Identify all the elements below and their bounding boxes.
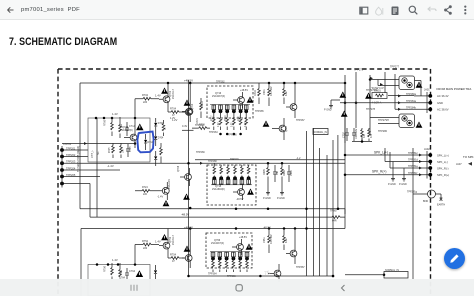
svg-text:TPP268: TPP268 xyxy=(208,160,217,163)
page heading xyxy=(9,36,117,48)
svg-text:R702: R702 xyxy=(142,94,149,97)
resistor R702 xyxy=(135,94,159,104)
svg-text:C951: C951 xyxy=(263,237,266,243)
svg-text:C901: C901 xyxy=(263,89,266,95)
svg-text:R715: R715 xyxy=(196,118,199,124)
svg-text:R705: R705 xyxy=(109,147,111,153)
resistor R712 xyxy=(160,143,163,163)
transistor Q770 xyxy=(286,230,297,264)
ground P-GND (mid 1) xyxy=(263,190,271,200)
svg-text:64R: 64R xyxy=(332,220,337,223)
warning mark (Q716) xyxy=(247,97,254,103)
svg-text:R706: R706 xyxy=(104,119,107,126)
svg-text:+48.5V: +48.5V xyxy=(239,236,247,239)
svg-text:TPP267: TPP267 xyxy=(296,119,305,122)
resistor R758 xyxy=(119,263,123,277)
wire Q704 emitter branch xyxy=(182,129,194,131)
wire TPP205 net xyxy=(62,169,120,171)
svg-text:1.4V: 1.4V xyxy=(112,112,118,116)
svg-text:75: 75 xyxy=(264,270,271,277)
svg-text:-48.5V: -48.5V xyxy=(181,213,189,217)
svg-text:TP667: TP667 xyxy=(330,210,338,213)
svg-text:TPP277: TPP277 xyxy=(390,66,400,69)
wire speaker feed R+ xyxy=(345,174,429,176)
svg-text:R906: R906 xyxy=(283,170,286,176)
resistor TP667 64R xyxy=(330,210,340,223)
resistor R705 xyxy=(109,143,114,158)
resistor labels under Q716 xyxy=(212,115,247,127)
transistor Q702 xyxy=(159,83,175,112)
wire input net horizontal xyxy=(62,143,136,145)
highlight annotation box (hand-drawn) xyxy=(137,132,153,153)
svg-text:GND: GND xyxy=(437,101,443,105)
bottom navigation bar xyxy=(0,279,474,296)
relay NORMAL_IN box (R channel) xyxy=(345,269,408,278)
wire power section verticals xyxy=(345,72,395,143)
transistor inside Q766 xyxy=(232,239,243,255)
warning mark (power 2) xyxy=(341,111,348,117)
diode bridge DB02 (lower pair) xyxy=(399,114,415,128)
svg-text:BND: BND xyxy=(423,200,428,203)
svg-text:R754: R754 xyxy=(170,254,177,257)
ground P-GND (speaker 2) xyxy=(399,168,407,186)
resistor R756 xyxy=(104,263,114,279)
svg-text:220: 220 xyxy=(143,101,148,104)
svg-text:TPP279H: TPP279H xyxy=(378,119,389,122)
svg-text:TPP278: TPP278 xyxy=(366,108,376,111)
svg-text:AC 36.4V: AC 36.4V xyxy=(437,94,449,98)
svg-text:1.4V: 1.4V xyxy=(155,239,161,243)
warning mark (Q766) xyxy=(246,244,253,250)
svg-text:R721: R721 xyxy=(238,115,240,121)
wire TPP206 net xyxy=(62,176,100,178)
svg-text:P GND: P GND xyxy=(324,109,332,112)
wire TPP207 net xyxy=(62,183,90,185)
transistor Q720 xyxy=(286,83,297,118)
svg-text:-1.4V: -1.4V xyxy=(157,195,163,199)
emitter resistor row under Q766 xyxy=(212,259,249,273)
svg-text:2SA1145: 2SA1145 xyxy=(168,179,171,189)
document info icon xyxy=(392,7,399,16)
svg-text:P-GND: P-GND xyxy=(277,197,285,200)
resistor R708 xyxy=(119,117,123,138)
node JA07 arrow label xyxy=(456,162,472,166)
svg-text:C705: C705 xyxy=(130,146,132,152)
svg-text:TPP366: TPP366 xyxy=(227,275,236,278)
svg-text:Q708: Q708 xyxy=(177,165,180,172)
svg-text:P-GND: P-GND xyxy=(388,183,396,186)
svg-text:47: 47 xyxy=(172,260,175,263)
svg-text:0.47/50V: 0.47/50V xyxy=(270,86,273,96)
svg-text:+48.5V: +48.5V xyxy=(240,89,248,92)
svg-text:0.47/50V: 0.47/50V xyxy=(270,234,273,244)
wire R-channel bottom bus xyxy=(189,275,334,277)
svg-text:R756: R756 xyxy=(104,265,107,272)
svg-text:C714: C714 xyxy=(129,125,136,128)
transistor Q708 xyxy=(177,165,191,186)
junction dots on input box L xyxy=(95,117,137,120)
transistor Q754 xyxy=(182,229,192,269)
warning mark (Q722) xyxy=(263,121,270,127)
junction dots (-48.5V rail) xyxy=(235,208,340,230)
capacitor C732 xyxy=(287,165,293,182)
svg-text:1000/63V: 1000/63V xyxy=(355,128,358,139)
svg-text:EARTH: EARTH xyxy=(437,204,445,207)
svg-text:TPP262: TPP262 xyxy=(216,81,225,84)
svg-text:220: 220 xyxy=(143,247,148,250)
schematic page border (dash-dot) xyxy=(58,69,431,296)
svg-text:0.4V: 0.4V xyxy=(182,125,187,128)
svg-text:FROM MAIN POWER TRA: FROM MAIN POWER TRA xyxy=(437,87,472,91)
svg-text:P-GND: P-GND xyxy=(399,183,407,186)
svg-text:TPP269: TPP269 xyxy=(196,151,205,154)
svg-text:NORMAL_IN: NORMAL_IN xyxy=(314,131,328,134)
svg-text:R719: R719 xyxy=(225,115,227,121)
fusible resistor GM01 xyxy=(371,87,387,105)
wire L-channel left vertical xyxy=(80,83,345,209)
svg-text:R752: R752 xyxy=(142,240,149,243)
svg-text:SPK_L(+): SPK_L(+) xyxy=(374,150,388,154)
resistor R720 xyxy=(263,83,273,106)
capacitor C730 xyxy=(273,165,279,182)
home nav button xyxy=(236,285,242,291)
svg-text:AC 38.6V: AC 38.6V xyxy=(437,108,449,112)
resistor R752 xyxy=(135,240,159,250)
junction dots (rails) xyxy=(134,78,372,277)
capacitor C707 xyxy=(343,128,350,141)
resistor R704 xyxy=(168,108,185,121)
connector CN701 pins xyxy=(60,142,72,188)
ground P GND (power) xyxy=(324,100,340,112)
terminal EARTH screw xyxy=(407,190,445,207)
svg-text:TPP284b: TPP284b xyxy=(406,106,417,109)
transistor Q772 xyxy=(268,264,281,282)
svg-text:JA07: JA07 xyxy=(456,163,462,166)
svg-text:C764: C764 xyxy=(129,270,136,273)
svg-text:R716: R716 xyxy=(201,101,204,107)
overflow menu icon xyxy=(464,6,466,15)
wire speaker feed L+ xyxy=(345,154,429,156)
svg-text:NORMAL_IN: NORMAL_IN xyxy=(385,269,399,272)
emitter resistor row above Q718 xyxy=(213,163,250,178)
svg-text:SPK_L(-): SPK_L(-) xyxy=(437,160,448,164)
svg-text:10k: 10k xyxy=(123,148,125,153)
svg-text:TPP205: TPP205 xyxy=(66,173,76,177)
svg-text:2SC4117: 2SC4117 xyxy=(172,235,175,245)
resistor R707 xyxy=(120,143,125,158)
diode bridge DB01 (upper pair) xyxy=(399,76,421,96)
svg-text:TPP266: TPP266 xyxy=(228,134,237,137)
svg-text:TPP202: TPP202 xyxy=(66,153,76,157)
svg-text:TPP280: TPP280 xyxy=(378,130,388,133)
pin dots of Q716 xyxy=(210,105,250,136)
svg-text:TPP281e: TPP281e xyxy=(408,165,419,168)
wire -48.5V rail horizontal xyxy=(90,184,345,229)
svg-text:1.4V: 1.4V xyxy=(155,94,161,98)
capacitor C708 xyxy=(352,128,358,141)
capacitor C705 xyxy=(126,144,132,157)
resistor R724 xyxy=(135,186,158,196)
svg-text:+48.5V: +48.5V xyxy=(184,79,193,83)
warning mark (D714) xyxy=(136,123,144,130)
wire speaker feed L- xyxy=(385,148,429,162)
svg-text:6.8k: 6.8k xyxy=(285,238,288,243)
svg-text:GM01: GM01 xyxy=(374,90,381,93)
junction dot (bottom bus) xyxy=(259,275,262,278)
svg-text:-1.2: -1.2 xyxy=(296,156,301,160)
wire +B rail vertical xyxy=(188,80,190,276)
resistor R770 xyxy=(263,230,273,253)
svg-text:R905: R905 xyxy=(263,169,266,175)
diode D704 xyxy=(154,133,164,146)
wire right section vertical xyxy=(412,148,414,279)
svg-text:CTH_L: CTH_L xyxy=(91,149,94,158)
svg-text:SPK_R(-): SPK_R(-) xyxy=(437,166,449,170)
svg-text:1k: 1k xyxy=(165,127,167,130)
transistor inside Q716 xyxy=(233,92,244,108)
svg-text:TPP364: TPP364 xyxy=(208,273,217,276)
diode D752 xyxy=(154,265,157,279)
transistor Q722 xyxy=(272,118,288,140)
input stage box R xyxy=(88,265,150,296)
warning mark (Q708) xyxy=(183,194,190,200)
transistor Q706 xyxy=(182,108,193,115)
warning mark (rectifier bottom) xyxy=(416,122,423,128)
top app bar xyxy=(0,0,474,20)
svg-text:TPP367: TPP367 xyxy=(296,266,305,269)
search icon xyxy=(409,6,417,14)
resistor R732 xyxy=(281,163,286,190)
svg-text:SPK_R(+): SPK_R(+) xyxy=(437,173,449,177)
svg-text:JA02: JA02 xyxy=(424,148,430,151)
svg-text:0.22: 0.22 xyxy=(232,122,234,127)
svg-text:CN701: CN701 xyxy=(63,142,72,146)
warning mark (Q718) xyxy=(247,189,254,195)
transistor inside Q718 xyxy=(233,184,244,200)
resistor R730 xyxy=(263,163,269,190)
warning mark (Q754) xyxy=(184,246,191,252)
svg-text:1.4V: 1.4V xyxy=(112,258,118,262)
wire output bus verticals xyxy=(307,128,338,276)
svg-text:R717: R717 xyxy=(212,115,214,121)
op-amp power block Q718 (dashed IC box, lower) xyxy=(207,165,256,205)
warning mark (power 1) xyxy=(339,92,346,98)
svg-text:2SC4467(F): 2SC4467(F) xyxy=(212,95,225,98)
svg-text:TPP264: TPP264 xyxy=(209,131,218,134)
svg-text:47k: 47k xyxy=(363,133,366,138)
svg-text:D714: D714 xyxy=(148,142,154,144)
diode D714 xyxy=(144,134,154,150)
svg-text:R724: R724 xyxy=(142,186,148,189)
svg-text:R704: R704 xyxy=(170,108,177,111)
wire L-channel right vertical xyxy=(344,83,346,214)
svg-text:TPP275: TPP275 xyxy=(354,69,364,72)
pin dots of Q766 xyxy=(210,252,250,261)
svg-text:2SC4117: 2SC4117 xyxy=(172,89,175,99)
svg-text:TPP204: TPP204 xyxy=(66,167,76,171)
svg-text:-48.5V: -48.5V xyxy=(263,226,271,230)
svg-text:2SA1694(F): 2SA1694(F) xyxy=(212,188,225,191)
svg-text:TPP280a: TPP280a xyxy=(406,93,417,96)
svg-text:TPP281f: TPP281f xyxy=(408,172,418,175)
resistor R708b xyxy=(368,128,373,141)
svg-text:TPP201: TPP201 xyxy=(66,147,76,151)
pencil icon xyxy=(450,254,458,262)
op-amp power block Q766 (dashed IC box, R channel) xyxy=(206,233,252,268)
svg-text:JA01: JA01 xyxy=(424,89,430,92)
connector JA01 pins xyxy=(424,89,432,114)
svg-text:TPP281c: TPP281c xyxy=(408,152,419,155)
wire L-channel top rail xyxy=(80,82,345,84)
wire TPP203 net xyxy=(62,156,88,158)
transistor Q752 xyxy=(159,229,175,259)
resistor R706 xyxy=(104,117,114,136)
svg-text:"FUSE"0.47: "FUSE"0.47 xyxy=(371,87,384,90)
edit FAB xyxy=(444,248,465,269)
svg-text:56k: 56k xyxy=(120,269,123,274)
warning mark (Q702) xyxy=(161,88,168,94)
svg-text:Q722: Q722 xyxy=(285,125,288,132)
wire capacitor ground bus xyxy=(352,136,372,143)
sidebar view icon xyxy=(360,7,368,14)
svg-text:TO SPK TE: TO SPK TE xyxy=(463,155,474,159)
ground P-GND (mid 2) xyxy=(277,190,285,200)
resistor R710 xyxy=(162,120,166,136)
svg-text:SPK_L(+): SPK_L(+) xyxy=(437,153,449,157)
capacitor C714 xyxy=(125,122,136,136)
back nav button xyxy=(342,285,345,291)
capacitor C764 xyxy=(125,268,136,279)
svg-text:SPK_R(+): SPK_R(+) xyxy=(372,170,386,174)
wire TPP202 net xyxy=(62,149,88,151)
svg-text:+48.5V: +48.5V xyxy=(184,225,193,229)
op-amp power block Q716 (dashed IC box, upper) xyxy=(207,86,253,118)
wire Q702 collector drop xyxy=(134,99,136,128)
warning mark (power 3) xyxy=(365,93,372,99)
wire mid bias net xyxy=(195,159,345,161)
warning mark (Q710) xyxy=(163,200,170,206)
svg-text:-1.4V: -1.4V xyxy=(107,164,114,168)
wire Q752 collector drop xyxy=(134,245,136,264)
svg-text:2SC4117(F): 2SC4117(F) xyxy=(120,129,133,132)
junction dot on output bus xyxy=(332,275,335,278)
svg-text:TPP281d: TPP281d xyxy=(408,159,419,162)
wire TPP204 long net xyxy=(62,162,345,164)
svg-text:0.22: 0.22 xyxy=(245,122,247,127)
recents nav button xyxy=(131,285,137,291)
svg-text:TO MAIN PWB (4E94): TO MAIN PWB (4E94) xyxy=(76,146,80,172)
svg-text:R718: R718 xyxy=(254,90,257,96)
svg-text:C707: C707 xyxy=(343,132,346,138)
share icon xyxy=(444,5,452,14)
svg-text:NC: NC xyxy=(97,151,100,155)
svg-text:0.22: 0.22 xyxy=(218,122,220,127)
warning mark (input box R) xyxy=(136,270,144,277)
test point arrows xyxy=(84,77,422,177)
svg-text:TPP203: TPP203 xyxy=(66,160,76,164)
wire speaker feed R- xyxy=(390,152,429,168)
svg-text:2SC4467(F): 2SC4467(F) xyxy=(211,242,224,245)
pin dots of Q718 xyxy=(211,176,252,184)
connector JA02 pins (speaker) xyxy=(424,148,432,179)
resistor R718 xyxy=(254,83,260,104)
warning mark (Q704) xyxy=(184,100,191,106)
emitter resistor row under Q716 xyxy=(213,111,248,130)
svg-text:TPP270: TPP270 xyxy=(230,158,239,161)
warning mark (rectifier top) xyxy=(416,82,423,88)
svg-text:6.8k: 6.8k xyxy=(285,91,288,96)
ground P-GND (speaker 1) xyxy=(388,162,396,187)
transistor Q714 xyxy=(120,126,137,148)
resistor R709 xyxy=(192,124,210,130)
highlighter icon (disabled) xyxy=(376,7,383,15)
svg-text:220: 220 xyxy=(143,193,148,196)
warning mark (Q752) xyxy=(161,234,168,240)
resistor R722 xyxy=(283,83,288,104)
svg-text:TPP265: TPP265 xyxy=(255,110,264,113)
wire feedback vertical xyxy=(96,118,98,217)
input stage box L xyxy=(88,118,150,162)
svg-text:10k: 10k xyxy=(276,170,279,175)
svg-text:470: 470 xyxy=(370,133,373,138)
diode D702 xyxy=(154,118,164,133)
wire R-channel top rail xyxy=(81,229,345,296)
svg-text:1.2V: 1.2V xyxy=(172,118,178,122)
undo icon (disabled) xyxy=(428,7,436,11)
svg-text:4-1CR-A: 4-1CR-A xyxy=(372,102,382,105)
svg-text:TPP284a: TPP284a xyxy=(406,100,417,103)
transistor Q704 xyxy=(182,83,194,122)
resistor R754 xyxy=(168,254,185,263)
diode D706 xyxy=(154,151,157,166)
svg-text:P-GND: P-GND xyxy=(263,197,271,200)
back arrow icon xyxy=(8,7,14,12)
resistor R716 xyxy=(200,98,204,118)
junction dots on input box R xyxy=(96,263,137,266)
svg-text:TPP281g: TPP281g xyxy=(407,191,418,194)
wire rectifier feeds xyxy=(340,80,429,124)
resistor R707 xyxy=(361,128,366,141)
transistor Q710 xyxy=(158,179,171,200)
svg-text:D704: D704 xyxy=(158,138,164,140)
resistor R772 xyxy=(283,230,288,250)
svg-text:C904: C904 xyxy=(290,170,293,176)
relay NORMAL_IN box xyxy=(313,129,328,135)
